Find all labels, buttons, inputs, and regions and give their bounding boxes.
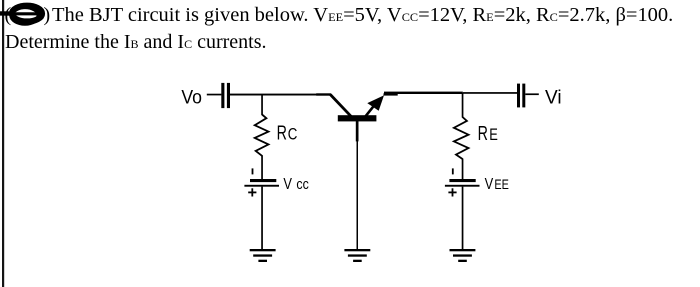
svg-text:EE: EE bbox=[494, 177, 509, 192]
label RC bbox=[277, 123, 298, 145]
header text line 1 bbox=[52, 5, 659, 25]
svg-text:R: R bbox=[478, 123, 488, 145]
transistor Q1 (NPN, base down) bbox=[316, 93, 398, 141]
svg-text:Vi: Vi bbox=[545, 86, 562, 108]
wire C2 to Vi bbox=[525, 93, 539, 95]
svg-text:R: R bbox=[277, 123, 287, 145]
wire RC to battery VCC bbox=[261, 155, 263, 179]
battery VEE minus tick bbox=[452, 168, 454, 174]
svg-text:V: V bbox=[485, 176, 494, 193]
node Vi label bbox=[545, 86, 562, 108]
wire C1 to collector node bbox=[230, 94, 317, 96]
header text line 2 bbox=[5, 32, 267, 52]
wire RE junction to capacitor C2 bbox=[463, 92, 517, 94]
battery VCC minus tick bbox=[252, 168, 254, 174]
resistor RC bbox=[255, 115, 269, 156]
resistor RE bbox=[454, 117, 469, 159]
svg-text:E: E bbox=[489, 126, 498, 144]
wire collector junction down to RC bbox=[261, 95, 263, 115]
battery VCC bbox=[244, 179, 279, 187]
wire emitter to RE junction bbox=[384, 92, 463, 94]
wire RE junction down to RE bbox=[462, 93, 464, 118]
capacitor C1 (output coupling) bbox=[221, 83, 230, 108]
wire base to ground bbox=[357, 141, 359, 249]
header text line 1: parenthesis ( bbox=[5, 5, 12, 25]
battery VEE plus sign bbox=[448, 188, 456, 196]
wire VEE to ground bbox=[462, 187, 464, 250]
ground (right) bbox=[450, 249, 476, 262]
svg-text:cc: cc bbox=[296, 177, 308, 193]
ground (left) bbox=[250, 249, 276, 262]
capacitor C2 (input coupling) bbox=[517, 84, 525, 108]
node Vo label bbox=[181, 86, 202, 108]
header text line 1: parenthesis ) bbox=[44, 5, 51, 25]
battery VCC plus sign bbox=[248, 188, 256, 196]
svg-text:V: V bbox=[283, 176, 292, 193]
scribble blob over problem number bbox=[0, 6, 42, 24]
svg-text:Vo: Vo bbox=[181, 86, 202, 108]
svg-text:C: C bbox=[288, 126, 298, 144]
wire RE to battery VEE bbox=[462, 159, 464, 180]
label VCC bbox=[283, 176, 308, 193]
label VEE bbox=[485, 176, 509, 193]
ground (base) bbox=[344, 249, 370, 262]
scan edge line (left margin) bbox=[2, 0, 4, 287]
label RE bbox=[478, 123, 498, 145]
battery VEE bbox=[445, 179, 480, 187]
wire VCC to ground bbox=[261, 187, 263, 250]
wire Vo to capacitor C1 bbox=[207, 94, 222, 96]
